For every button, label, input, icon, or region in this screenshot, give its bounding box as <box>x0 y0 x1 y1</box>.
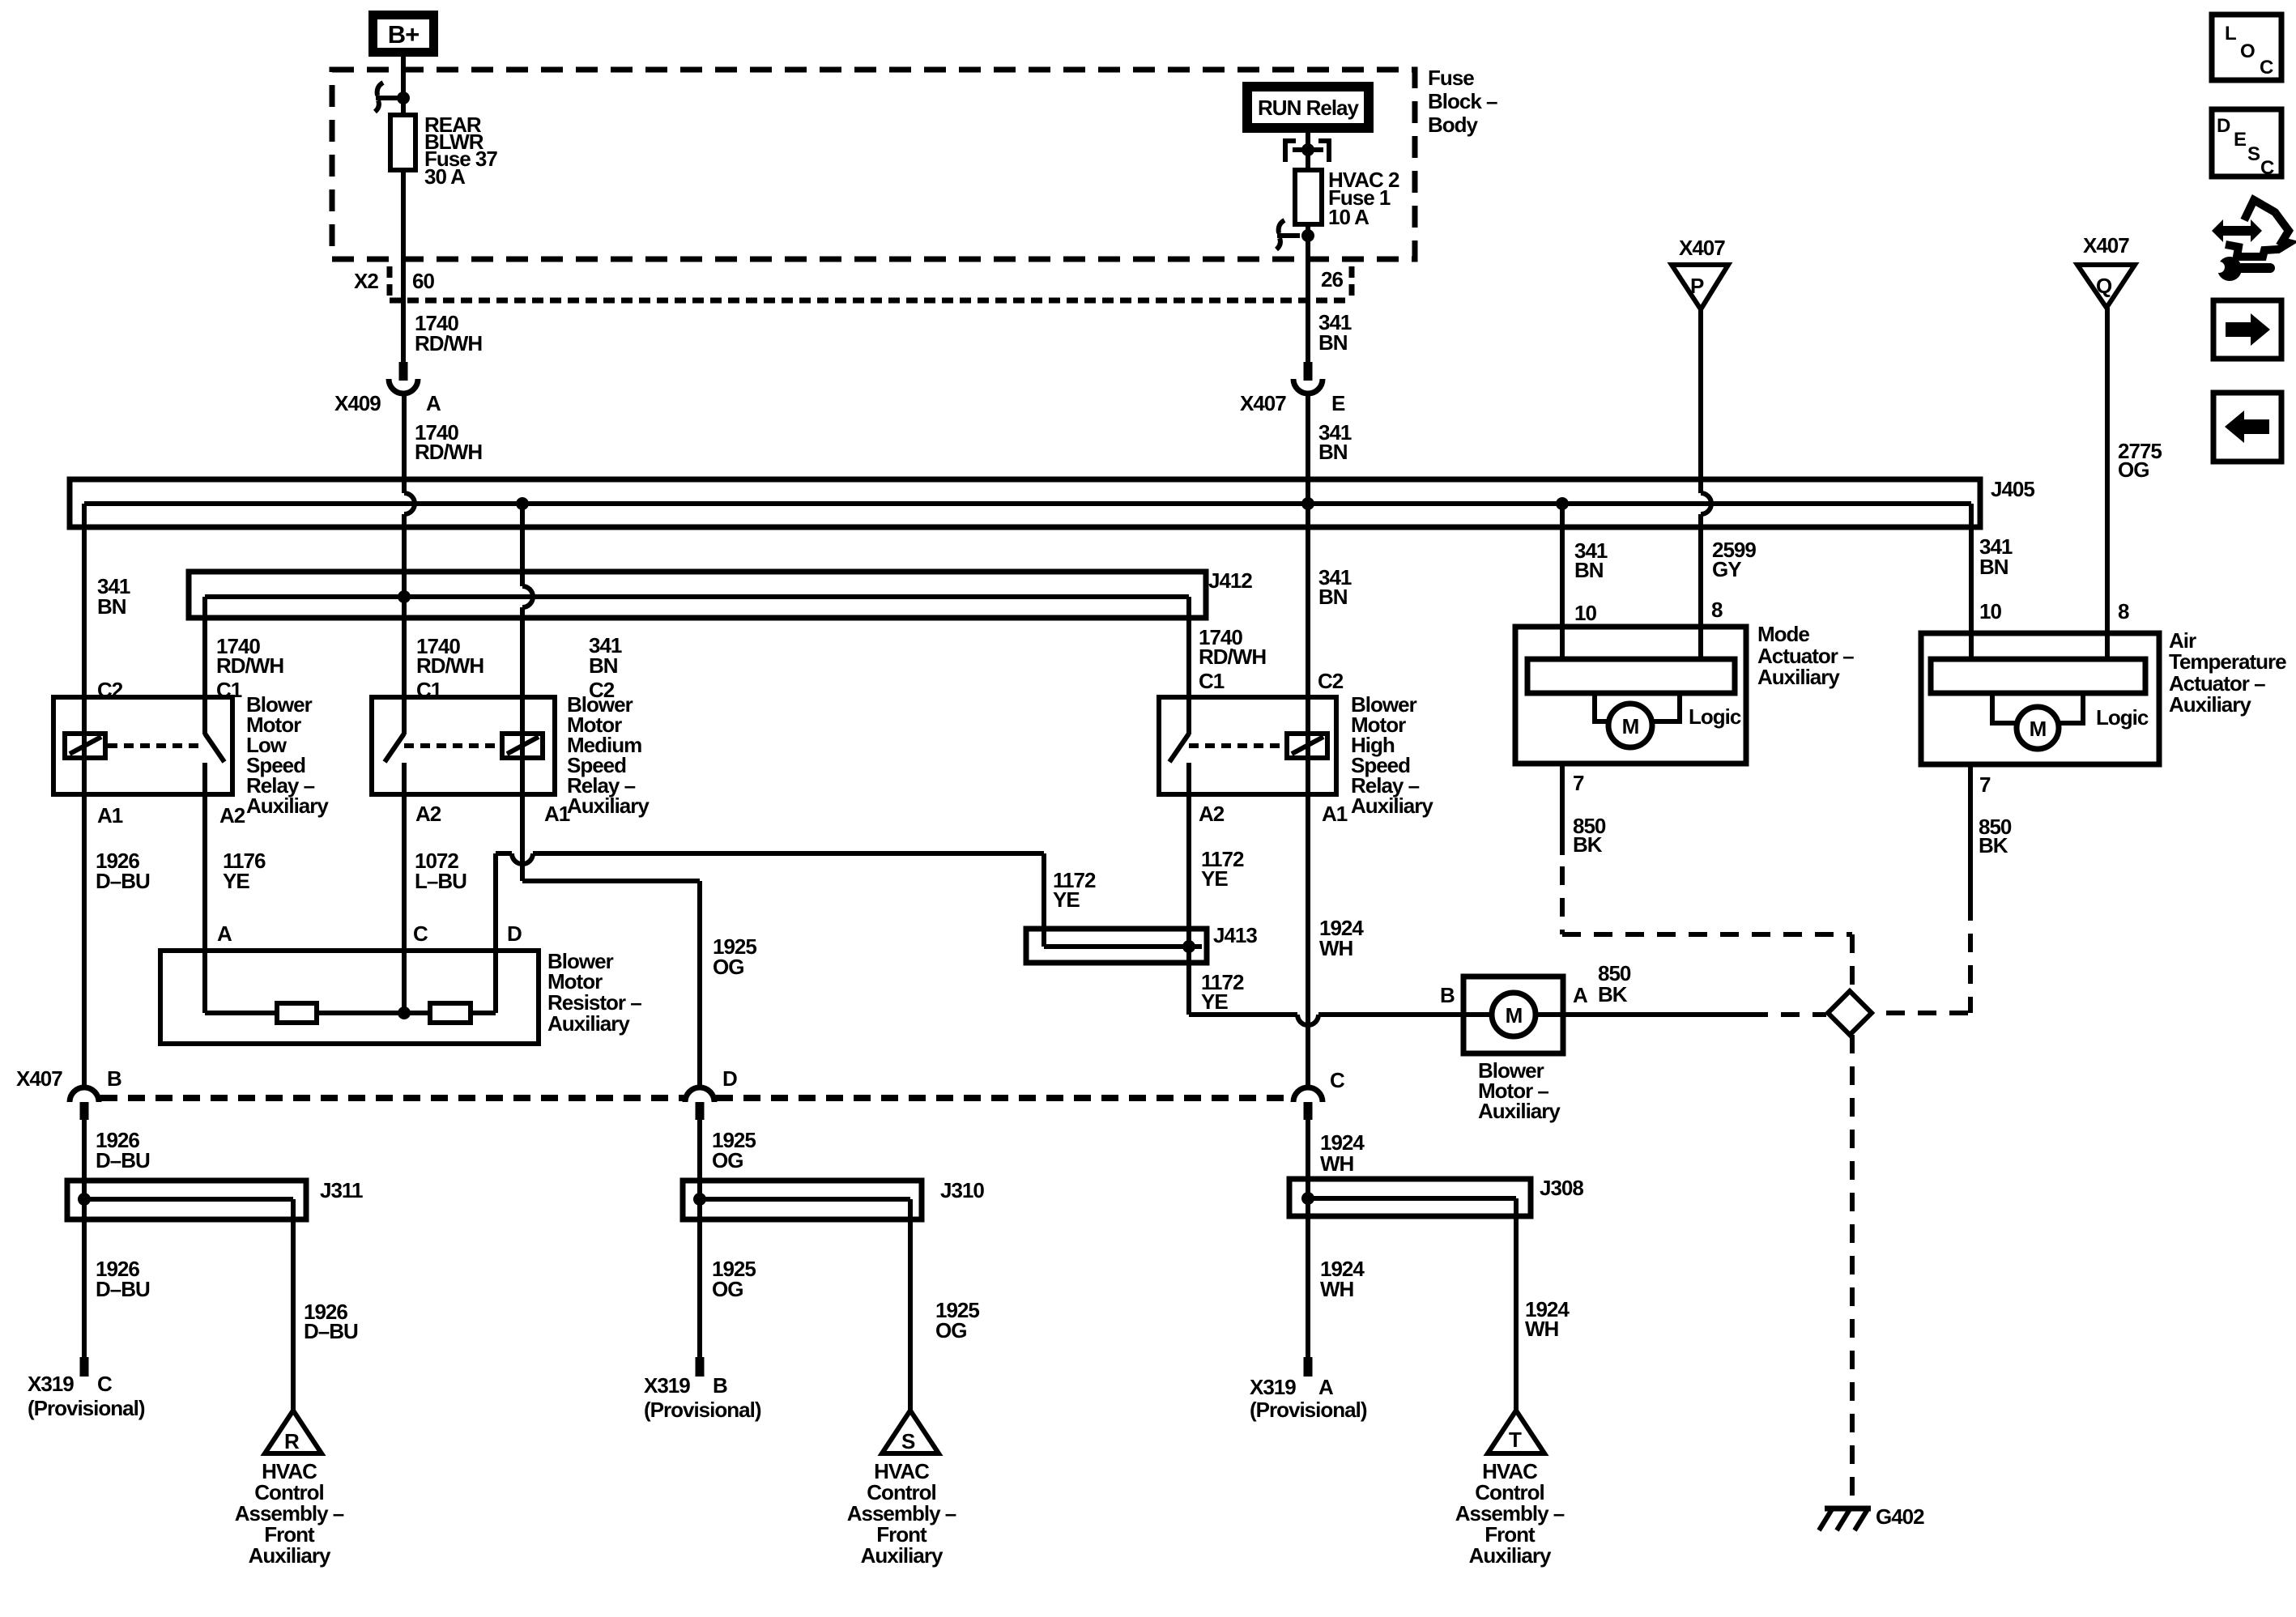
RUN Relay box <box>1247 87 1369 128</box>
svg-text:RD/WH: RD/WH <box>216 653 283 678</box>
svg-text:C: C <box>2260 57 2273 79</box>
svg-text:X319: X319 <box>1250 1375 1296 1399</box>
svg-text:Block –: Block – <box>1428 89 1497 113</box>
wire 1072 L-BU label <box>415 849 466 893</box>
node J405 to mode actuator <box>1556 497 1569 510</box>
wire 341 BN label low <box>97 574 130 619</box>
svg-text:Logic: Logic <box>2096 705 2149 730</box>
svg-text:D: D <box>507 921 522 946</box>
wire 1172 YE label above J413 <box>1201 847 1244 891</box>
wire X407 P to mode actuator pin 8 with hump over J405 <box>1701 309 1711 661</box>
svg-text:OG: OG <box>935 1318 966 1343</box>
svg-text:J413: J413 <box>1213 923 1257 947</box>
wire 1926 D-BU label above J311 <box>96 1128 150 1172</box>
fuse block body dashed box <box>332 70 1415 259</box>
wire 1926 D-BU J311 branch to triangle R <box>291 1199 296 1411</box>
wire 341 BN label 2 <box>1318 420 1352 464</box>
wire 850 BK air pin 7 <box>1873 764 1970 1013</box>
svg-text:10: 10 <box>1574 601 1596 625</box>
svg-text:X407: X407 <box>1240 391 1286 415</box>
connector X409 pin A <box>334 362 441 415</box>
svg-text:B: B <box>1440 983 1455 1007</box>
svg-text:M: M <box>1622 714 1639 738</box>
connector X319 pin C <box>28 1357 145 1420</box>
svg-text:R: R <box>284 1429 300 1453</box>
svg-text:A1: A1 <box>1322 802 1348 826</box>
wire X409 A down to J412 and medium relay C1 with hump over J405 bus <box>404 394 415 697</box>
svg-text:GY: GY <box>1712 557 1741 581</box>
wire 1924 WH label branch <box>1525 1297 1570 1341</box>
svg-text:C1: C1 <box>1199 669 1225 693</box>
svg-text:A: A <box>217 921 232 946</box>
svg-text:WH: WH <box>1525 1317 1559 1341</box>
svg-text:M: M <box>1506 1003 1523 1028</box>
relay K3 blower motor high speed relay auxiliary <box>1159 692 1433 818</box>
wire fuse 37 to X409 <box>401 170 406 362</box>
svg-text:D: D <box>2217 115 2230 137</box>
svg-text:60: 60 <box>412 269 434 293</box>
svg-text:Auxiliary: Auxiliary <box>1351 794 1433 818</box>
fuse F1 HVAC 2 <box>1295 168 1399 229</box>
nav icon LOC <box>2212 15 2281 80</box>
svg-text:J412: J412 <box>1208 568 1252 593</box>
wire 1172 YE resistor D up and right to J413 with hump <box>496 853 1044 951</box>
svg-text:RD/WH: RD/WH <box>1199 645 1266 669</box>
connector X407 inline dashed boundary <box>100 1095 1292 1101</box>
svg-text:C: C <box>97 1372 113 1396</box>
relay terminal bracket <box>1283 139 1331 162</box>
svg-text:B: B <box>107 1066 121 1091</box>
wire 850 BK diamond to ground dashed <box>1850 1035 1855 1504</box>
wire 1740 RD/WH label medium C1 <box>416 634 483 678</box>
svg-text:BK: BK <box>1979 833 2008 857</box>
svg-text:D–BU: D–BU <box>96 1148 150 1172</box>
wire 1172 YE high relay A2 down through J413 to blower motor B <box>1189 794 1493 1025</box>
wire 1925 OG medium relay A1 right-down to X407 D <box>522 794 700 1088</box>
svg-text:A: A <box>1318 1375 1334 1399</box>
node J412 at medium relay C1 wire <box>398 590 411 603</box>
svg-text:T: T <box>1509 1428 1522 1452</box>
svg-text:C: C <box>2260 157 2274 179</box>
nav icon DESC <box>2212 109 2281 179</box>
blower motor auxiliary <box>1463 977 1563 1123</box>
relay K1 blower motor low speed relay auxiliary <box>53 692 329 818</box>
wire 850 BK mode pin 7 dashed <box>1562 764 1852 989</box>
svg-text:A2: A2 <box>1199 802 1225 826</box>
svg-text:X409: X409 <box>334 391 381 415</box>
wire 1176 YE label <box>223 849 266 893</box>
connector X407 pin C <box>1293 1068 1345 1120</box>
svg-text:X319: X319 <box>28 1372 74 1396</box>
wire 341 BN J405 to mode actuator pin 10 <box>1560 504 1565 661</box>
svg-text:26: 26 <box>1321 267 1343 291</box>
svg-text:RUN Relay: RUN Relay <box>1258 96 1359 120</box>
splice diamond 850 BK <box>1828 991 1872 1035</box>
wire 1925 OG X407 D to J310 <box>697 1120 702 1357</box>
wire J412 left end to low relay C1 <box>202 597 207 697</box>
svg-text:M: M <box>2030 717 2047 741</box>
svg-text:D–BU: D–BU <box>96 1277 150 1301</box>
svg-text:8: 8 <box>2118 599 2129 623</box>
air temperature actuator auxiliary box <box>1921 633 2159 764</box>
svg-text:D: D <box>722 1066 737 1091</box>
wire 1740 RD/WH label 2 <box>415 420 482 464</box>
splice pack J405 <box>70 477 2034 527</box>
splice pack J310 <box>683 1178 984 1219</box>
svg-text:YE: YE <box>1053 887 1080 912</box>
wire B+ to fuse 37 <box>401 52 406 115</box>
wire 341 BN J405 right end to air temp actuator pin 10 <box>1969 504 1974 661</box>
wire 1924 WH label below J308 <box>1320 1257 1365 1301</box>
svg-text:8: 8 <box>1711 598 1723 622</box>
svg-text:C1: C1 <box>216 678 242 702</box>
wire 1740 RD/WH label high C1 <box>1199 625 1266 669</box>
splice pack J308 <box>1289 1176 1583 1216</box>
wire 1924 WH X407 C to J308 <box>1306 1120 1310 1357</box>
svg-text:Auxiliary: Auxiliary <box>249 1543 331 1568</box>
wire 1740 RD/WH label low C1 <box>216 634 283 678</box>
splice pack J413 <box>1026 923 1257 963</box>
svg-text:L: L <box>2225 23 2236 45</box>
node J405 to medium relay C2 <box>516 497 529 510</box>
svg-text:S: S <box>901 1429 915 1453</box>
connector X2 boundary <box>390 266 1352 300</box>
svg-text:10: 10 <box>1979 599 2001 623</box>
svg-text:Auxiliary: Auxiliary <box>1478 1099 1561 1123</box>
wire 1924 WH J308 branch to triangle T <box>1514 1198 1519 1411</box>
svg-text:J405: J405 <box>1991 477 2034 501</box>
svg-text:OG: OG <box>2118 457 2149 482</box>
svg-text:A2: A2 <box>415 802 441 826</box>
wire fuse 1 to X407 E <box>1306 224 1310 362</box>
node J405 at X407 E wire <box>1301 497 1314 510</box>
wire J412 right end to high relay C1 <box>1186 597 1191 697</box>
svg-text:RD/WH: RD/WH <box>415 440 482 464</box>
wire 341 BN label high C2 <box>1318 565 1352 609</box>
wire 1924 WH high relay A1 to X407 C <box>1306 794 1310 1088</box>
svg-text:BN: BN <box>1318 440 1348 464</box>
svg-text:E: E <box>2234 129 2247 151</box>
svg-text:YE: YE <box>223 869 249 893</box>
svg-text:Auxiliary: Auxiliary <box>2169 692 2251 717</box>
svg-text:Mode: Mode <box>1757 622 1809 646</box>
svg-text:RD/WH: RD/WH <box>415 331 482 355</box>
svg-text:D–BU: D–BU <box>96 869 150 893</box>
svg-text:O: O <box>2240 40 2255 62</box>
svg-text:P: P <box>1690 274 1704 298</box>
svg-text:Body: Body <box>1428 113 1479 137</box>
svg-text:Temperature: Temperature <box>2169 649 2286 674</box>
mode actuator label <box>1757 622 1854 689</box>
wire 1925 OG label <box>713 934 756 979</box>
triangle S HVAC control assembly <box>847 1411 956 1568</box>
svg-text:YE: YE <box>1201 866 1228 891</box>
svg-text:WH: WH <box>1319 936 1353 960</box>
wire 1926 D-BU X407 B to J311 <box>82 1120 87 1357</box>
wire 850 BK label air <box>1979 815 2012 857</box>
svg-text:Auxiliary: Auxiliary <box>1757 665 1840 689</box>
svg-text:B+: B+ <box>388 20 420 49</box>
wire 2599 GY label <box>1712 538 1756 581</box>
svg-text:RD/WH: RD/WH <box>416 653 483 678</box>
mode actuator auxiliary box <box>1515 627 1746 764</box>
svg-text:YE: YE <box>1201 989 1228 1014</box>
svg-text:BK: BK <box>1598 982 1628 1006</box>
svg-text:X407: X407 <box>2083 233 2129 257</box>
svg-text:A2: A2 <box>219 803 245 828</box>
wire 850 BK label mode <box>1573 814 1606 857</box>
svg-text:Auxiliary: Auxiliary <box>861 1543 944 1568</box>
connector X407 pin B <box>16 1066 121 1120</box>
motor M air temp actuator <box>1992 693 2083 749</box>
svg-text:J308: J308 <box>1540 1176 1583 1200</box>
svg-text:J310: J310 <box>940 1178 984 1202</box>
wire 2775 OG label <box>2118 439 2162 482</box>
svg-text:A: A <box>1573 983 1588 1007</box>
svg-text:C2: C2 <box>97 678 123 702</box>
svg-text:C2: C2 <box>1318 669 1344 693</box>
svg-text:10 A: 10 A <box>1328 205 1370 229</box>
wire RUN relay to fuse 1 <box>1306 133 1310 170</box>
svg-text:BN: BN <box>589 653 618 678</box>
wire 1072 L-BU medium relay A2 to resistor C <box>402 794 407 951</box>
svg-text:OG: OG <box>713 955 743 979</box>
svg-text:C2: C2 <box>589 678 615 702</box>
triangle R HVAC control assembly <box>235 1411 344 1568</box>
wire 1926 D-BU label branch <box>304 1300 358 1343</box>
splice pack J412 <box>189 568 1252 618</box>
svg-text:7: 7 <box>1573 771 1584 795</box>
svg-text:Auxiliary: Auxiliary <box>246 794 329 818</box>
connector X407 pin D <box>685 1066 737 1120</box>
svg-text:C: C <box>1330 1068 1345 1092</box>
svg-text:D–BU: D–BU <box>304 1319 358 1343</box>
svg-text:X2: X2 <box>354 269 378 293</box>
wire J405 left branch 341 BN to low relay C2 <box>82 504 87 697</box>
battery feed B+ box <box>373 15 434 53</box>
fuse F37 REAR BLWR <box>390 113 497 189</box>
svg-text:B: B <box>713 1373 727 1398</box>
wire X407 E down to J405 and high relay C2 <box>1306 394 1310 697</box>
svg-text:BK: BK <box>1573 832 1603 857</box>
air temp actuator label <box>2169 628 2286 717</box>
wire 1926 D-BU label <box>96 849 150 893</box>
svg-text:Logic: Logic <box>1689 704 1741 729</box>
motor M mode actuator <box>1595 693 1680 747</box>
blower motor resistor auxiliary box <box>160 949 641 1044</box>
svg-text:(Provisional): (Provisional) <box>1250 1398 1367 1422</box>
relay K2 blower motor medium speed relay auxiliary <box>372 692 650 818</box>
svg-text:Auxiliary: Auxiliary <box>1469 1543 1552 1568</box>
svg-text:OG: OG <box>712 1277 743 1301</box>
splice pack J311 <box>67 1178 363 1219</box>
connector X407 pin P triangle <box>1672 236 1728 309</box>
wire 341 BN label medium C2 <box>589 633 622 678</box>
wire 341 BN label air <box>1979 534 2013 579</box>
wire 1925 OG label above J310 <box>712 1128 756 1172</box>
svg-text:Fuse: Fuse <box>1428 66 1474 90</box>
svg-text:A1: A1 <box>97 803 123 828</box>
svg-text:30 A: 30 A <box>424 164 466 189</box>
svg-text:BN: BN <box>1318 330 1348 355</box>
wire 1172 YE label at J413 riser <box>1053 868 1096 912</box>
svg-text:OG: OG <box>712 1148 743 1172</box>
svg-text:Auxiliary: Auxiliary <box>547 1011 630 1036</box>
wire 1926 D-BU low relay A1 to X407 B <box>82 794 87 1088</box>
triangle T HVAC control assembly <box>1455 1411 1565 1568</box>
svg-text:BN: BN <box>1979 555 2008 579</box>
fuse block label <box>1428 66 1497 137</box>
wire 1925 OG label below J310 <box>712 1257 756 1301</box>
svg-text:WH: WH <box>1320 1151 1354 1176</box>
svg-text:7: 7 <box>1979 772 1991 797</box>
wire 341 BN to medium relay C2 with hump over J412 <box>522 504 533 697</box>
svg-text:(Provisional): (Provisional) <box>644 1398 761 1422</box>
wire 850 BK motor A to diamond <box>1536 1012 1826 1017</box>
ground G402 <box>1819 1504 1924 1530</box>
nav icon arrow right <box>2213 300 2281 359</box>
wire X407 Q to air temp actuator pin 8 <box>2105 308 2110 661</box>
wire 1924 WH label <box>1319 916 1364 960</box>
svg-text:E: E <box>1331 391 1345 415</box>
svg-text:Auxiliary: Auxiliary <box>567 794 650 818</box>
wire 1172 YE label below J413 <box>1201 970 1244 1014</box>
svg-text:G402: G402 <box>1876 1504 1924 1529</box>
wire 1925 OG label branch <box>935 1298 979 1343</box>
nav icon arrow left <box>2213 393 2281 462</box>
wire 341 BN label <box>1318 310 1352 355</box>
wire 1926 D-BU label below J311 <box>96 1257 150 1301</box>
svg-text:A1: A1 <box>544 802 570 826</box>
connector X407 pin Q triangle <box>2077 233 2135 308</box>
svg-text:A: A <box>426 391 441 415</box>
nav icon vehicle with arrows and wrench <box>2212 200 2289 281</box>
svg-text:X319: X319 <box>644 1373 690 1398</box>
svg-text:C1: C1 <box>416 678 442 702</box>
svg-text:Q: Q <box>2096 274 2112 298</box>
connector X407 pin E <box>1240 362 1345 415</box>
svg-text:BN: BN <box>97 594 126 619</box>
connector X319 pin B <box>644 1357 761 1422</box>
wire 1925 OG J310 branch to triangle S <box>908 1199 913 1411</box>
terminal hook at fuse 37 <box>375 83 410 112</box>
svg-text:WH: WH <box>1320 1277 1354 1301</box>
svg-text:C: C <box>413 921 428 946</box>
wire 341 BN label mode <box>1574 538 1608 582</box>
wire 850 BK label motor <box>1598 961 1631 1006</box>
svg-text:X407: X407 <box>1679 236 1725 260</box>
wire 1740 RD/WH label <box>415 311 482 355</box>
svg-text:J311: J311 <box>320 1178 363 1202</box>
terminal hook below fuse 1 <box>1276 220 1314 249</box>
svg-text:(Provisional): (Provisional) <box>28 1396 145 1420</box>
wire 1176 YE low relay A2 to resistor A <box>202 794 207 951</box>
svg-text:BN: BN <box>1574 558 1604 582</box>
wire 1924 WH label above J308 <box>1320 1130 1365 1176</box>
svg-text:S: S <box>2247 143 2260 165</box>
connector X319 pin A <box>1250 1357 1367 1422</box>
svg-text:L–BU: L–BU <box>415 869 466 893</box>
svg-text:X407: X407 <box>16 1066 62 1091</box>
svg-text:BN: BN <box>1318 585 1348 609</box>
